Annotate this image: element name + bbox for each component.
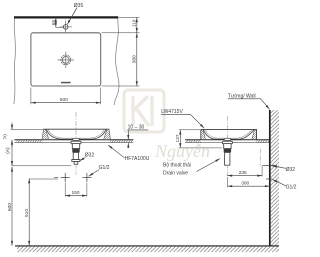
counter left break edge	[14, 19, 16, 105]
faucet hole crosshair	[60, 26, 73, 28]
side tailpiece body	[224, 144, 231, 149]
svg-text:65: 65	[51, 20, 57, 26]
front tailpiece pipe	[73, 152, 78, 159]
centerline front	[75, 112, 77, 148]
drain inner circle	[62, 57, 69, 64]
wall line (plan, counter back edge)	[14, 16, 118, 18]
front tailpiece nut	[72, 149, 79, 153]
dim 150 line	[65, 195, 87, 197]
dim 70 ext line at rim level	[11, 129, 43, 131]
watermark logo KH	[124, 90, 164, 132]
front counter hatch right	[110, 140, 133, 142]
svg-text:Drain valve: Drain valve	[163, 170, 188, 176]
front tailpiece body	[72, 144, 79, 149]
plan centerline	[65, 20, 67, 85]
dim 137 ext bottom	[179, 147, 222, 149]
dim 510 ext line	[29, 178, 58, 180]
svg-text:137: 137	[175, 134, 181, 142]
svg-text:Nguyễn: Nguyễn	[154, 141, 210, 161]
side counter hatch right	[257, 140, 270, 142]
side tailpiece nut	[224, 149, 231, 153]
O35 leader	[67, 8, 77, 25]
Drain valve leader	[197, 159, 221, 172]
wall outlet O32 tick	[263, 164, 277, 166]
svg-text:HF7A100U: HF7A100U	[125, 156, 150, 162]
front tailpiece flange	[71, 141, 81, 144]
wall hatch band	[271, 110, 279, 246]
floor line	[15, 245, 279, 247]
dim line 380	[136, 33, 138, 86]
dim 300 line	[227, 185, 269, 187]
svg-text:Bộ thoát thải: Bộ thoát thải	[163, 163, 191, 169]
dim (A) line	[11, 143, 13, 166]
ext line 500 right	[100, 88, 102, 105]
svg-text:500: 500	[60, 97, 68, 103]
floor hatch band	[17, 247, 279, 253]
dim 235 line	[227, 175, 262, 177]
svg-text:235: 235	[239, 170, 247, 176]
side bowl outer curve	[203, 130, 254, 140]
dim 70 upper arrow	[11, 123, 13, 130]
side left wall wedge	[201, 129, 206, 139]
dim 70 lower arrow	[11, 140, 13, 147]
faucet hole circle O35	[63, 25, 68, 30]
side centerline	[226, 116, 228, 147]
LW4715V underline + leader	[161, 114, 204, 128]
dim 65 line	[55, 17, 57, 27]
dim 65 extension to faucet	[56, 26, 63, 28]
dim 600 line	[11, 167, 13, 246]
side left wall edge	[200, 129, 202, 139]
O32 front leader	[80, 158, 86, 161]
wall supply G1/2 tick	[266, 178, 272, 180]
supply cross right	[82, 173, 91, 182]
side counter bottom line	[185, 142, 270, 144]
HF7A100U leader	[108, 145, 125, 158]
front bowl drain	[73, 138, 80, 140]
front counter hatch left	[17, 140, 43, 142]
svg-text:G1/2: G1/2	[286, 185, 297, 191]
front right wall wedge	[104, 129, 111, 139]
10-30 lower arrow	[127, 143, 129, 148]
side pipe centerline below	[226, 165, 228, 177]
front bowl outer curve	[46, 130, 106, 140]
front tailpiece tip	[74, 162, 78, 165]
G1/2 right leader	[273, 180, 286, 186]
side tailpiece flange	[222, 141, 232, 144]
svg-text:Ø32: Ø32	[85, 152, 95, 158]
svg-text:150: 150	[72, 190, 80, 196]
ext line top right (110)	[119, 16, 140, 18]
dim line 500	[31, 102, 101, 104]
dim 137 line	[179, 130, 181, 148]
front counter bottom line	[14, 142, 133, 144]
Tuong underline + leader	[228, 99, 270, 110]
ext line rect bottom right	[102, 85, 140, 87]
svg-text:600: 600	[7, 203, 13, 211]
svg-text:(A): (A)	[5, 147, 11, 154]
side counter hatch left	[186, 140, 201, 142]
svg-text:380: 380	[132, 55, 138, 63]
ref line at pipe bottom	[12, 165, 71, 167]
svg-text:300: 300	[241, 180, 249, 186]
dim 510 line	[28, 179, 30, 246]
svg-text:70: 70	[3, 134, 9, 140]
side right wall wedge	[252, 129, 257, 139]
wall face line	[269, 110, 271, 246]
drain crosshair (plan)	[58, 59, 74, 61]
supply cross left	[61, 173, 70, 182]
counter right edge + break	[114, 19, 119, 106]
G1/2 front leader	[89, 170, 99, 176]
dim 235 ext right	[261, 166, 263, 177]
dim 300 ext left	[226, 177, 228, 187]
10-30 upper arrow	[127, 130, 129, 140]
wall outlet centerline	[260, 149, 262, 166]
ext line 500 left	[30, 88, 32, 105]
front tailpiece ring	[72, 160, 80, 162]
drain outer circle	[61, 55, 71, 65]
side sink rim line	[201, 128, 257, 130]
dim line 110	[136, 17, 138, 32]
front bowl inner curve	[48, 130, 104, 139]
front pipe centerline below	[75, 165, 77, 175]
10-30 underline	[127, 129, 148, 131]
ext line rect top right	[102, 32, 140, 34]
svg-text:Ø32: Ø32	[286, 167, 296, 173]
front counter top line	[14, 139, 133, 141]
svg-text:Ø35: Ø35	[74, 3, 84, 9]
front left wall wedge	[42, 129, 49, 139]
dim 137 ext top	[179, 129, 200, 131]
side counter top line	[185, 139, 270, 141]
supply cross left outer dash	[54, 177, 58, 179]
side bowl drain	[224, 138, 231, 140]
side tailpiece pipe	[225, 152, 230, 165]
O32 right leader	[272, 166, 286, 169]
front sink rim line	[43, 128, 109, 130]
side right wall edge	[256, 129, 258, 139]
side bowl inner curve	[205, 130, 252, 139]
svg-text:510: 510	[24, 209, 30, 217]
dim 150 ext lines	[64, 183, 66, 197]
svg-text:110: 110	[132, 19, 138, 27]
svg-text:G1/2: G1/2	[99, 165, 110, 171]
sink rectangle (plan)	[31, 33, 101, 86]
overflow slot	[61, 82, 71, 84]
